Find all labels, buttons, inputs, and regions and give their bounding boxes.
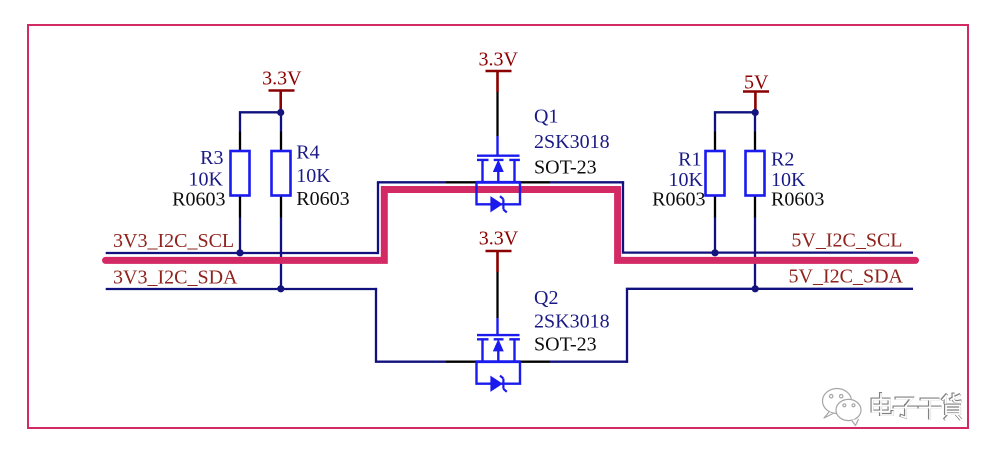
wire R4 bottom to SDA bbox=[280, 218, 282, 289]
label R4 bbox=[296, 142, 319, 164]
resistor R1 pins bbox=[714, 132, 716, 218]
svg-text:10K: 10K bbox=[189, 169, 224, 191]
wire SCL top horizontal left bbox=[377, 181, 446, 183]
svg-text:Q2: Q2 bbox=[534, 287, 558, 309]
wire R1 bottom to SCL bbox=[714, 218, 716, 253]
wire 3V3_I2C_SCL horizontal bbox=[106, 252, 378, 254]
svg-text:2SK3018: 2SK3018 bbox=[534, 131, 610, 153]
resistor R3 pins bbox=[239, 132, 241, 218]
svg-text:3.3V: 3.3V bbox=[478, 49, 518, 71]
watermark WeChat logo bbox=[823, 389, 862, 426]
wire SCL right riser bbox=[622, 181, 624, 252]
resistor R3 bbox=[231, 151, 250, 196]
label R3 bbox=[200, 147, 223, 169]
label Q1 part 2SK3018 bbox=[534, 131, 610, 153]
svg-text:5V_I2C_SCL: 5V_I2C_SCL bbox=[791, 230, 902, 252]
wire pullup top right bbox=[714, 111, 755, 131]
resistor R2 bbox=[746, 151, 765, 196]
label Q2 footprint SOT-23 bbox=[534, 334, 597, 356]
label Q2 part 2SK3018 bbox=[534, 311, 610, 333]
svg-text:R1: R1 bbox=[678, 149, 701, 171]
label R2 bbox=[771, 149, 794, 171]
power 3.3V left bbox=[262, 68, 302, 110]
net label 5V_I2C_SDA bbox=[789, 266, 904, 288]
wire Q1 gate (black) bbox=[496, 92, 498, 136]
wire R2 bottom to SDA bbox=[754, 218, 756, 289]
svg-text:R2: R2 bbox=[771, 149, 794, 171]
svg-text:3V3_I2C_SCL: 3V3_I2C_SCL bbox=[113, 230, 234, 252]
svg-text:2SK3018: 2SK3018 bbox=[534, 311, 610, 333]
transistor Q1 bbox=[476, 136, 521, 212]
label Q1 footprint SOT-23 bbox=[534, 157, 597, 179]
wire SDA bottom horizontal left bbox=[375, 361, 446, 363]
junction R4 to SDA bbox=[277, 285, 284, 292]
svg-text:3.3V: 3.3V bbox=[479, 228, 519, 250]
label Q2 bbox=[534, 287, 558, 309]
net label 3V3_I2C_SCL bbox=[113, 230, 234, 252]
label R4 value 10K bbox=[296, 165, 331, 187]
resistor R4 bbox=[272, 151, 291, 196]
label Q1 bbox=[534, 106, 558, 128]
net label 3V3_I2C_SDA bbox=[113, 267, 238, 289]
power 5V right bbox=[743, 72, 769, 111]
svg-text:3V3_I2C_SDA: 3V3_I2C_SDA bbox=[113, 267, 238, 289]
svg-text:SOT-23: SOT-23 bbox=[534, 334, 597, 356]
label R3 value 10K bbox=[189, 169, 224, 191]
resistor R4 pins bbox=[280, 132, 282, 218]
svg-text:R0603: R0603 bbox=[771, 189, 824, 211]
wire 5V_I2C_SCL horizontal bbox=[622, 251, 913, 253]
wire SDA left dropper bbox=[375, 288, 377, 362]
svg-text:R3: R3 bbox=[200, 147, 223, 169]
power 3.3V at Q1 gate bbox=[478, 49, 518, 93]
resistor R2 pins bbox=[754, 132, 756, 218]
wire SCL left riser bbox=[377, 182, 379, 254]
wire SDA bottom horizontal right bbox=[550, 361, 628, 363]
label R2 footprint R0603 bbox=[771, 189, 824, 211]
label R1 value 10K bbox=[669, 169, 704, 191]
wire SDA right riser bbox=[626, 289, 628, 363]
svg-text:SOT-23: SOT-23 bbox=[534, 157, 597, 179]
svg-text:R4: R4 bbox=[296, 142, 319, 164]
label R3 footprint R0603 bbox=[172, 189, 225, 211]
label R1 footprint R0603 bbox=[652, 189, 705, 211]
power 3.3V at Q2 gate bbox=[479, 228, 519, 273]
svg-text:3.3V: 3.3V bbox=[262, 68, 302, 90]
junction R3 to SCL bbox=[236, 249, 243, 256]
net label 5V_I2C_SCL bbox=[791, 230, 902, 252]
svg-text:5V_I2C_SDA: 5V_I2C_SDA bbox=[789, 266, 904, 288]
svg-text:R0603: R0603 bbox=[296, 188, 349, 210]
svg-text:R0603: R0603 bbox=[652, 189, 705, 211]
wire R3 bottom to SCL bbox=[239, 218, 241, 253]
wire pullup top left bbox=[239, 111, 281, 131]
junction R1 to SCL bbox=[711, 249, 718, 256]
transistor Q2 bbox=[476, 318, 521, 392]
junction at 5V pullup top bbox=[752, 109, 759, 116]
wire Q2 gate (black) bbox=[496, 272, 498, 318]
junction R2 to SDA bbox=[752, 285, 759, 292]
label R1 bbox=[678, 149, 701, 171]
svg-text:R0603: R0603 bbox=[172, 189, 225, 211]
svg-text:Q1: Q1 bbox=[534, 106, 558, 128]
label R2 value 10K bbox=[771, 169, 806, 191]
wire 3V3_I2C_SDA horizontal bbox=[106, 288, 377, 290]
resistor R1 bbox=[706, 151, 725, 196]
junction at 3.3V pullup top bbox=[277, 109, 284, 116]
svg-text:10K: 10K bbox=[296, 165, 331, 187]
wire SCL top horizontal right bbox=[550, 181, 624, 183]
highlighted SCL net trace bbox=[106, 190, 916, 261]
transistor Q2 pins (black) bbox=[446, 361, 550, 363]
wire 5V_I2C_SDA horizontal bbox=[626, 288, 913, 290]
label R4 footprint R0603 bbox=[296, 188, 349, 210]
transistor Q1 pins (black) bbox=[446, 181, 550, 183]
